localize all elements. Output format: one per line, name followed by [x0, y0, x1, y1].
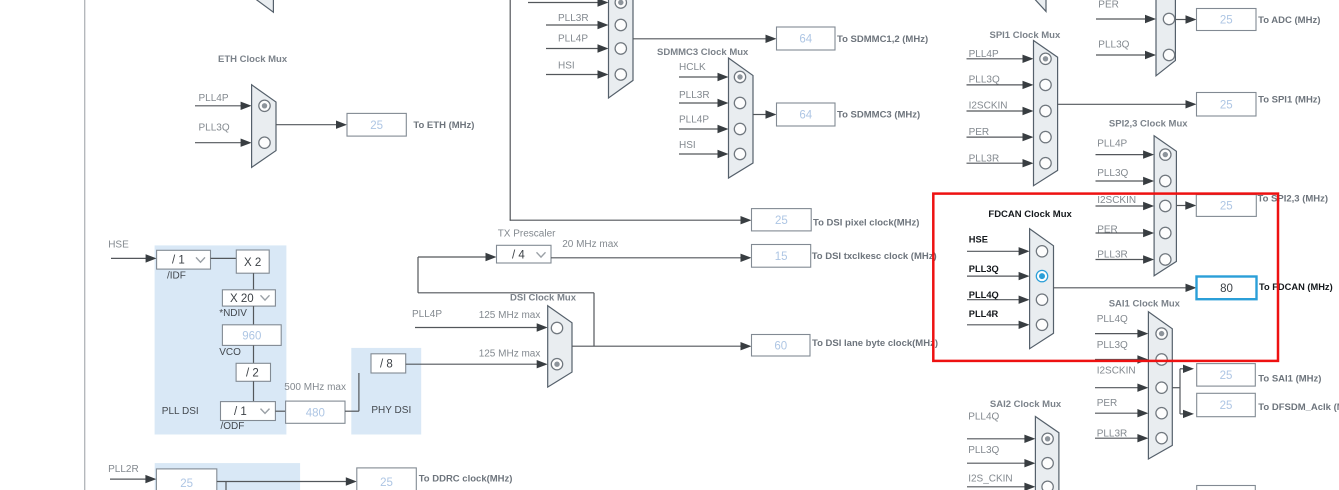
- svg-text:PLL4R: PLL4R: [969, 309, 999, 319]
- svg-text:HSE: HSE: [108, 240, 129, 251]
- svg-text:FDCAN Clock Mux: FDCAN Clock Mux: [988, 209, 1072, 220]
- value box VCO 960: [222, 325, 281, 346]
- svg-text:X 20: X 20: [230, 293, 254, 305]
- svg-text:PLL3Q: PLL3Q: [199, 123, 230, 134]
- svg-text:To DSI pixel clock(MHz): To DSI pixel clock(MHz): [813, 217, 919, 228]
- svg-text:PER: PER: [1097, 225, 1118, 236]
- svg-text:64: 64: [799, 110, 812, 122]
- wire HCLK into SDMMC1,2 mux (top row, cut): [528, 2, 600, 4]
- radio SAI1 input 1 selected: [1156, 328, 1167, 339]
- svg-text:PLL3R: PLL3R: [1097, 250, 1128, 261]
- mux ADC Clock Mux (cut off at top): [1156, 0, 1175, 76]
- partial mux corner (top-left, cut off at top): [256, 0, 274, 12]
- wire PLL4P into SDMMC3 mux: [679, 128, 720, 130]
- wire /2 down to /ODF: [253, 381, 255, 401]
- svg-text:500 MHz max: 500 MHz max: [284, 382, 346, 393]
- svg-text:60: 60: [774, 340, 787, 352]
- svg-text:960: 960: [242, 330, 261, 342]
- radio SDMMC1,2 input 1 selected: [615, 0, 626, 8]
- radio SPI2,3 input 4: [1160, 227, 1171, 238]
- divider box /8 (PHY DSI): [371, 354, 406, 373]
- value box To DSI lane byte clock 60 MHz: [752, 335, 811, 357]
- wire PLL4P into SPI2,3 mux: [1096, 154, 1146, 156]
- wire SPI2,3 mux output: [1176, 205, 1187, 207]
- value box To SPI1 25 MHz: [1197, 93, 1257, 117]
- wire *NDIV down to VCO: [253, 306, 255, 325]
- radio FDCAN input PLL4Q: [1036, 294, 1047, 305]
- wire HCLK into SDMMC3 mux: [679, 76, 720, 78]
- radio SAI1 input 2: [1156, 354, 1167, 365]
- svg-text:PLL4P: PLL4P: [199, 93, 229, 104]
- DDRC block background: [155, 463, 300, 490]
- wire PLL2R into DDRC divider box: [110, 478, 147, 480]
- divider box /2: [236, 363, 270, 381]
- svg-text:25: 25: [370, 120, 383, 132]
- wire TX Prescaler output to txclkesc box: [551, 257, 743, 259]
- svg-text:PLL4Q: PLL4Q: [1097, 314, 1128, 325]
- wire I2SCKIN into SPI2,3 mux: [1096, 205, 1146, 207]
- wire PLL4Q into SAI2 mux: [967, 438, 1026, 440]
- wire FDCAN mux output: [1054, 287, 1188, 289]
- svg-text:125 MHz max: 125 MHz max: [479, 310, 541, 321]
- radio SAI2 input 2: [1042, 458, 1053, 469]
- svg-text:I2SCKIN: I2SCKIN: [969, 101, 1008, 112]
- value box To SPI2,3 25 MHz: [1196, 195, 1256, 217]
- svg-text:PLL3R: PLL3R: [679, 90, 710, 101]
- radio SAI1 input 5: [1156, 433, 1167, 444]
- svg-text:PLL4P: PLL4P: [1097, 139, 1127, 150]
- wire HSI into SDMMC1,2 mux: [546, 74, 600, 76]
- svg-text:480: 480: [306, 408, 325, 420]
- wire DDRC branch down: [225, 482, 227, 490]
- svg-text:HCLK: HCLK: [679, 62, 706, 73]
- wire X2 down to *NDIV: [253, 273, 255, 290]
- svg-text:/IDF: /IDF: [167, 271, 186, 282]
- svg-text:To SPI2,3 (MHz): To SPI2,3 (MHz): [1258, 193, 1329, 204]
- svg-text:DSI Clock Mux: DSI Clock Mux: [510, 293, 577, 304]
- radio SAI1 input 4: [1156, 408, 1167, 419]
- svg-text:25: 25: [775, 215, 788, 227]
- value box To ADC 25 MHz: [1197, 9, 1257, 31]
- mux SAI2 Clock Mux (cut off at bottom): [1035, 417, 1059, 490]
- radio SPI1 input 5: [1040, 158, 1051, 169]
- svg-text:HSE: HSE: [969, 235, 988, 245]
- wire PLL4P into SDMMC1,2 mux: [546, 48, 600, 50]
- radio SDMMC1,2 input 3: [615, 43, 626, 54]
- wire PER into SAI1 mux: [1095, 412, 1139, 414]
- svg-text:PLL4Q: PLL4Q: [968, 412, 999, 423]
- radio FDCAN input HSE: [1036, 246, 1047, 257]
- wire PLL3R into SDMMC1,2 mux: [546, 24, 600, 26]
- red highlight rectangle around FDCAN Clock Mux: [933, 194, 1278, 361]
- value box To DDRC clock 25 MHz (cut at bottom): [357, 468, 417, 490]
- radio ADC input PER: [1163, 13, 1174, 24]
- mux DSI Clock Mux: [548, 306, 572, 387]
- wire PLL3Q into SAI1 mux: [1095, 359, 1139, 361]
- mux FDCAN Clock Mux: [1030, 229, 1054, 349]
- svg-text:To SDMMC3 (MHz): To SDMMC3 (MHz): [837, 110, 920, 121]
- wire PLL3Q into SPI2,3 mux: [1096, 180, 1146, 182]
- mux SAI1 Clock Mux: [1148, 312, 1172, 459]
- mux SDMMC1,2 Clock Mux (cut off at top): [609, 0, 634, 98]
- svg-text:PLL3Q: PLL3Q: [1098, 40, 1129, 51]
- svg-text:I2SCKIN: I2SCKIN: [1097, 195, 1136, 206]
- svg-text:PLL4P: PLL4P: [412, 309, 442, 320]
- svg-text:25: 25: [1220, 400, 1233, 412]
- svg-text:PLL DSI: PLL DSI: [162, 406, 199, 417]
- wire I2SCKIN into SPI1 mux: [967, 110, 1025, 112]
- value box DDRC divider 25 (cut at bottom): [156, 469, 216, 490]
- svg-text:125 MHz max: 125 MHz max: [479, 349, 541, 360]
- svg-text:/ 8: / 8: [380, 359, 393, 371]
- radio DSI input 1: [551, 322, 562, 333]
- radio SAI1 input 3: [1156, 382, 1167, 393]
- value box To ETH 25 MHz: [347, 113, 406, 136]
- wire /8 output into DSI mux: [406, 363, 539, 365]
- wire PLL4P into SPI1 mux: [967, 58, 1025, 60]
- wire PLL4Q into FDCAN mux: [967, 299, 1021, 301]
- wire PER into ADC mux: [1096, 18, 1147, 20]
- svg-text:25: 25: [1220, 201, 1233, 213]
- svg-text:/ 1: / 1: [234, 406, 247, 418]
- svg-text:/ 1: / 1: [172, 255, 185, 267]
- svg-text:PLL3Q: PLL3Q: [969, 264, 999, 274]
- svg-text:I2SCKIN: I2SCKIN: [1097, 366, 1136, 377]
- wire branch from DSI output up to TX Prescaler: [593, 293, 595, 346]
- svg-text:ETH Clock Mux: ETH Clock Mux: [218, 54, 288, 65]
- radio SPI2,3 input 2: [1160, 175, 1171, 186]
- svg-text:X 2: X 2: [244, 257, 261, 269]
- wire PLL4P into ETH mux: [195, 105, 243, 107]
- radio ADC input PLL3Q: [1163, 49, 1174, 60]
- svg-text:To DFSDM_Aclk (MHz): To DFSDM_Aclk (MHz): [1258, 402, 1339, 413]
- mux SPI1 Clock Mux: [1034, 41, 1058, 186]
- svg-text:/ 4: / 4: [512, 250, 525, 262]
- wire PLL3R into SDMMC3 mux: [679, 102, 720, 104]
- svg-text:To DSI txclkesc clock (MHz): To DSI txclkesc clock (MHz): [812, 251, 937, 262]
- wire 480 box to PHY DSI /8: [345, 410, 359, 412]
- multiplier box X 2: [236, 250, 269, 273]
- mux SPI2,3 Clock Mux: [1154, 136, 1176, 276]
- wire SDMMC3 mux output: [753, 114, 768, 116]
- svg-text:PER: PER: [969, 127, 990, 138]
- divider dropdown /ODF value /1: [221, 402, 276, 421]
- radio SPI2,3 input 1 selected: [1160, 149, 1171, 160]
- svg-text:TX Prescaler: TX Prescaler: [498, 228, 556, 239]
- radio SDMMC1,2 input 4: [615, 69, 626, 80]
- svg-text:25: 25: [1220, 15, 1233, 27]
- svg-text:PLL4P: PLL4P: [558, 34, 588, 45]
- svg-text:25: 25: [380, 477, 393, 489]
- radio SDMMC1,2 input 2: [615, 19, 626, 30]
- svg-text:25: 25: [1220, 370, 1233, 382]
- svg-text:SDMMC3 Clock Mux: SDMMC3 Clock Mux: [657, 47, 749, 58]
- value box PLL DSI output 480: [286, 401, 345, 423]
- svg-text:To DDRC clock(MHz): To DDRC clock(MHz): [419, 474, 513, 485]
- wire PLL3R into SPI1 mux: [967, 162, 1025, 164]
- value box To FDCAN 80 MHz (selected, blue): [1197, 277, 1257, 300]
- svg-text:To ETH (MHz): To ETH (MHz): [413, 120, 474, 131]
- svg-text:SPI1 Clock Mux: SPI1 Clock Mux: [990, 30, 1061, 41]
- svg-text:SAI1 Clock Mux: SAI1 Clock Mux: [1109, 299, 1181, 310]
- radio SAI2 input 3: [1042, 481, 1053, 490]
- svg-text:80: 80: [1220, 283, 1233, 295]
- wire ADC mux output: [1175, 19, 1187, 21]
- wire I2S_CKIN into SAI2 mux: [967, 486, 1026, 488]
- svg-text:PHY DSI: PHY DSI: [371, 405, 411, 416]
- wire HSI into SDMMC3 mux: [679, 153, 720, 155]
- svg-text:SPI2,3 Clock Mux: SPI2,3 Clock Mux: [1109, 119, 1188, 130]
- svg-text:64: 64: [799, 34, 812, 46]
- svg-text:PLL3Q: PLL3Q: [968, 445, 999, 456]
- radio SPI2,3 input 5: [1160, 254, 1171, 265]
- svg-text:To DSI lane byte clock(MHz): To DSI lane byte clock(MHz): [812, 338, 938, 349]
- wire PER into SPI2,3 mux: [1096, 232, 1146, 234]
- svg-text:VCO: VCO: [219, 347, 241, 358]
- svg-text:HSI: HSI: [679, 140, 696, 151]
- svg-text:20 MHz max: 20 MHz max: [562, 239, 618, 250]
- wire PLL4P into DSI mux: [415, 327, 539, 329]
- radio FDCAN input PLL3Q selected (blue): [1036, 270, 1047, 281]
- PLL DSI block background: [155, 245, 287, 434]
- wire PLL3Q into SAI2 mux: [967, 462, 1026, 464]
- svg-text:*NDIV: *NDIV: [219, 308, 247, 319]
- wire PLL4Q into SAI1 mux: [1095, 333, 1139, 335]
- wire branch to DFSDM box: [1180, 413, 1185, 415]
- divider dropdown /IDF value /1: [157, 250, 211, 269]
- wire PLL3Q into ETH mux: [195, 142, 243, 144]
- wire branch to SAI1 box: [1180, 368, 1185, 370]
- wire PLL4R into FDCAN mux: [967, 324, 1021, 326]
- svg-text:SAI2 Clock Mux: SAI2 Clock Mux: [990, 399, 1062, 410]
- wire VCO down to /2: [253, 345, 255, 363]
- wire PLL3R into SPI2,3 mux: [1096, 259, 1146, 261]
- divider dropdown TX Prescaler /4: [497, 245, 552, 263]
- mux ETH Clock Mux: [252, 85, 276, 168]
- mux SDMMC3 Clock Mux: [729, 58, 754, 178]
- svg-text:To SDMMC1,2 (MHz): To SDMMC1,2 (MHz): [837, 34, 928, 45]
- svg-text:To SPI1 (MHz): To SPI1 (MHz): [1258, 95, 1321, 106]
- radio SAI2 input 1 selected: [1042, 433, 1053, 444]
- svg-text:/ 2: / 2: [246, 368, 259, 380]
- svg-text:PLL3Q: PLL3Q: [969, 75, 1000, 86]
- radio SDMMC3 input 4: [734, 148, 745, 159]
- svg-text:PLL4Q: PLL4Q: [969, 290, 999, 300]
- radio ETH input 1 selected: [259, 100, 270, 111]
- value box To SAI1 25 MHz: [1197, 364, 1256, 387]
- radio SPI1 input 3: [1040, 105, 1051, 116]
- radio SDMMC3 input 3: [734, 123, 745, 134]
- wire PLL3Q into SPI1 mux: [967, 84, 1025, 86]
- value box To DSI pixel clock 25 MHz: [752, 209, 812, 231]
- radio SPI1 input 2: [1040, 79, 1051, 90]
- svg-text:To SAI1 (MHz): To SAI1 (MHz): [1258, 373, 1321, 384]
- svg-text:PER: PER: [1098, 0, 1119, 10]
- wire PER into SPI1 mux: [967, 136, 1025, 138]
- radio SDMMC3 input 1 selected: [734, 71, 745, 82]
- wire SPI1 mux output: [1058, 103, 1188, 105]
- radio SPI2,3 input 3: [1160, 200, 1171, 211]
- svg-text:/ODF: /ODF: [221, 421, 245, 432]
- svg-text:25: 25: [180, 478, 193, 490]
- svg-text:PLL2R: PLL2R: [108, 464, 139, 475]
- wire /IDF to X2: [211, 257, 237, 259]
- wire PLL3R into SAI1 mux: [1095, 437, 1139, 439]
- value box bottom-right partially cut: [1197, 486, 1256, 490]
- value box To DSI txclkesc clock 15 MHz: [752, 245, 811, 268]
- radio SPI1 input 4: [1040, 131, 1051, 142]
- svg-text:PLL4P: PLL4P: [679, 115, 709, 126]
- radio ETH input 2: [259, 137, 270, 148]
- value box To DFSDM_Aclk 25 MHz: [1197, 393, 1256, 416]
- wire SAI1 output branch vertical: [1179, 369, 1181, 414]
- svg-text:PLL3Q: PLL3Q: [1097, 168, 1128, 179]
- wire DSI pixel clock from top down to pixel clock box: [509, 0, 511, 220]
- svg-text:HSI: HSI: [558, 61, 575, 72]
- radio SDMMC3 input 2: [734, 97, 745, 108]
- value box To SDMMC1,2 64 MHz: [777, 27, 836, 50]
- wire /ODF to 480 box: [275, 410, 285, 412]
- svg-text:15: 15: [775, 251, 788, 263]
- wire HSE into /IDF divider: [111, 257, 148, 259]
- svg-text:25: 25: [1220, 99, 1233, 111]
- wire PLL3Q into ADC mux: [1096, 54, 1147, 56]
- wire ETH mux output: [276, 124, 338, 126]
- svg-text:To FDCAN (MHz): To FDCAN (MHz): [1259, 282, 1333, 292]
- radio DSI input 2 selected: [551, 359, 562, 370]
- wire DDRC to output box: [217, 481, 348, 483]
- radio SPI1 input 1 selected: [1040, 53, 1051, 64]
- value box To SDMMC3 64 MHz: [777, 103, 836, 126]
- wire DSI mux output to lane byte clock box: [572, 345, 743, 347]
- svg-text:I2S_CKIN: I2S_CKIN: [968, 474, 1012, 485]
- wire PLL3Q into FDCAN mux: [967, 275, 1021, 277]
- partial mux corner (top-center-right, cut off at top): [1035, 0, 1046, 11]
- radio FDCAN input PLL4R: [1036, 319, 1047, 330]
- PHY DSI block background: [351, 348, 421, 435]
- multiplier dropdown *NDIV value X 20: [222, 290, 275, 306]
- svg-text:PER: PER: [1097, 398, 1118, 409]
- svg-text:PLL3R: PLL3R: [558, 13, 589, 24]
- wire I2SCKIN into SAI1 mux: [1095, 387, 1139, 389]
- svg-text:To ADC (MHz): To ADC (MHz): [1258, 15, 1320, 26]
- wire HSE into FDCAN mux: [967, 250, 1021, 252]
- wire SDMMC1,2 mux output: [633, 38, 768, 40]
- canvas left border line: [84, 0, 86, 490]
- wire SAI1 mux output stub: [1172, 387, 1180, 389]
- svg-text:PLL3Q: PLL3Q: [1097, 340, 1128, 351]
